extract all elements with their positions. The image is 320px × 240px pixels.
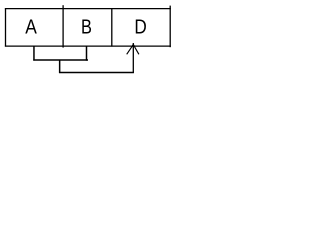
svg-text:B: B bbox=[81, 15, 92, 38]
svg-text:D: D bbox=[134, 15, 146, 38]
svg-text:A: A bbox=[25, 15, 37, 38]
